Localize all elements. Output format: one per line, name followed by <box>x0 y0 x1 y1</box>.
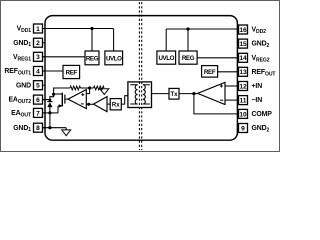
svg-text:9: 9 <box>241 125 245 132</box>
svg-text:REF: REF <box>66 70 78 77</box>
wire Rx to transformer <box>121 96 128 104</box>
pin 8 box <box>34 123 46 132</box>
transistor Q1 channel bar <box>61 93 63 107</box>
wire GND1 pin 8 rail <box>43 127 67 129</box>
pin 16 box <box>237 25 247 34</box>
transformer T1 primary winding <box>135 85 137 104</box>
svg-text:REG: REG <box>86 55 99 62</box>
svg-text:3: 3 <box>36 54 40 61</box>
pin 9 box <box>237 124 247 133</box>
resistor R2 <box>94 86 105 90</box>
junction GND rail <box>48 126 51 129</box>
wire REF to REFOUT <box>218 71 239 73</box>
svg-text:15: 15 <box>239 41 247 48</box>
pin 3 box <box>34 52 46 61</box>
wire -IN to U2 <box>225 99 239 101</box>
wire A2 output to A1 inverting input <box>86 103 93 105</box>
svg-text:UVLO: UVLO <box>158 55 174 62</box>
U2 minus sign <box>220 99 223 101</box>
wire node X to Q1 drain <box>54 93 63 95</box>
wire REG to VREG2 <box>197 57 238 59</box>
UVLO block (side 2) <box>157 51 176 64</box>
svg-text:2: 2 <box>36 40 40 47</box>
svg-text:14: 14 <box>239 55 247 62</box>
pin 4 box <box>34 67 46 76</box>
A1 plus sign <box>81 93 84 96</box>
pin 6 box <box>34 95 46 104</box>
resistor R1 <box>70 86 81 90</box>
wire Q1 gate to amp A1 output <box>65 98 68 100</box>
reference REF (side 1) <box>63 65 80 78</box>
transformer T1 box <box>128 82 152 108</box>
junction EAOUT2 at D1 cathode <box>49 99 52 102</box>
receiver block Rx <box>110 99 121 110</box>
svg-text:13: 13 <box>239 69 247 76</box>
svg-text:−IN: −IN <box>252 97 263 104</box>
junction on VDD1 rail above REG <box>90 27 93 30</box>
junction on A1 inverting input <box>87 103 90 106</box>
wire Q1 source with arrow <box>58 104 63 113</box>
junction EAOUT node <box>48 111 51 114</box>
svg-text:UVLO: UVLO <box>106 55 122 62</box>
pin 10 box <box>237 109 247 118</box>
wire D1 anode down to GND rail <box>49 107 51 128</box>
wire EAOUT2 to diode D1 cathode <box>43 99 50 101</box>
svg-text:REG: REG <box>182 55 195 62</box>
wire R1 to R2 <box>81 87 94 89</box>
pin 15 box <box>237 39 247 48</box>
wire U2 output to COMP <box>194 94 239 114</box>
svg-text:6: 6 <box>36 97 40 104</box>
wire transformer to Tx <box>152 93 170 95</box>
wire Tx to amp U2 output <box>179 93 198 95</box>
pin 11 box <box>237 96 247 105</box>
transmitter block Tx <box>169 88 179 99</box>
wire VREG1 to REG <box>43 56 86 58</box>
wire EAOUT to D1 anode / Q1 source <box>43 112 59 114</box>
svg-text:REF: REF <box>204 69 216 76</box>
op-amp A2 <box>94 97 108 112</box>
junction divider midpoint <box>88 86 91 89</box>
IC body outline <box>45 16 237 141</box>
wire VDD2 rail <box>166 28 238 30</box>
isolation barrier dashed line (right) <box>141 2 143 150</box>
transformer T1 primary stubs <box>130 85 137 104</box>
svg-text:8: 8 <box>36 125 40 132</box>
regulator REG (side 1) <box>85 51 99 65</box>
svg-text:16: 16 <box>239 27 247 34</box>
UVLO block (side 1) <box>105 51 123 65</box>
pin 12 box <box>237 82 247 91</box>
A1 minus sign <box>81 103 84 105</box>
svg-text:4: 4 <box>36 68 40 75</box>
wire node X jog to diode D1 <box>50 94 54 101</box>
junction node X <box>52 93 55 96</box>
wire REFOUT1 to REF <box>43 70 64 72</box>
pin 14 box <box>237 53 247 62</box>
svg-text:7: 7 <box>36 110 40 117</box>
U2 plus sign <box>220 85 223 88</box>
wire VDD2 to UVLO <box>165 29 167 51</box>
wire divider tap to amp A1 non-inverting input <box>86 88 89 94</box>
transformer T1 secondary winding <box>143 85 145 104</box>
wire +IN to U2 <box>225 85 239 87</box>
pin 13 box <box>237 67 247 76</box>
svg-text:10: 10 <box>239 111 247 118</box>
ground symbol side 1 <box>62 128 71 136</box>
svg-text:5: 5 <box>36 83 40 90</box>
transistor Q1 gate bar <box>64 95 66 104</box>
pin 5 box <box>34 81 46 90</box>
wire VDD1 to REG <box>91 29 93 52</box>
svg-text:Tx: Tx <box>170 92 178 98</box>
transformer T1 secondary stubs <box>143 85 150 104</box>
junction on VDD2 rail above REG <box>186 27 189 30</box>
svg-text:+IN: +IN <box>252 83 263 90</box>
wire VDD1 rail <box>43 28 114 30</box>
junction U2 output node <box>192 92 195 95</box>
wire Rx to A2 <box>107 103 110 105</box>
op-amp U2 <box>198 82 225 104</box>
svg-text:11: 11 <box>240 97 247 104</box>
diode D1 cathode bar <box>47 101 52 103</box>
reference REF (side 2) <box>202 66 218 78</box>
wire VDD2 to REG <box>187 29 189 51</box>
svg-text:GND: GND <box>16 82 31 89</box>
regulator REG (side 2) <box>179 51 197 64</box>
svg-text:Rx: Rx <box>112 103 120 109</box>
op-amp A1 <box>68 90 86 109</box>
svg-text:12: 12 <box>239 83 247 90</box>
svg-text:1: 1 <box>36 26 40 33</box>
pin 7 box <box>34 108 46 117</box>
ground symbol below R2 <box>100 89 109 95</box>
wire divider top corner <box>54 88 70 94</box>
pin 2 box <box>34 38 46 47</box>
isolation barrier dashed line (left) <box>138 2 140 150</box>
pin 1 box <box>34 24 46 33</box>
diode D1 <box>47 102 52 107</box>
svg-text:COMP: COMP <box>252 111 273 118</box>
wire VDD1 to UVLO <box>113 29 115 52</box>
